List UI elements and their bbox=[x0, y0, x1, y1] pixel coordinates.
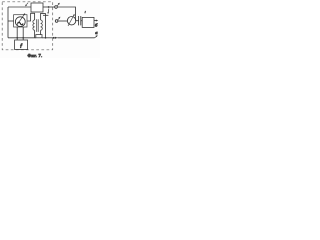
measured device box Z bbox=[82, 17, 94, 27]
wire secondary down to bottom bus bbox=[45, 13, 47, 37]
wire top horizontal to amplifier bbox=[8, 6, 31, 8]
node junction dot on top wire bbox=[48, 6, 50, 8]
wire generator stub bbox=[8, 20, 14, 22]
terminal circle b (lower output) bbox=[55, 20, 58, 23]
svg-text:Фиг. 7.: Фиг. 7. bbox=[28, 53, 43, 58]
terminal circle a (top output) bbox=[55, 6, 58, 9]
capacitor C bbox=[79, 16, 81, 25]
wire secondary bottom lead bbox=[40, 30, 42, 34]
label above measured box bbox=[84, 11, 87, 13]
svg-text:ƒ: ƒ bbox=[20, 43, 23, 49]
wire capacitor to box bbox=[81, 20, 82, 22]
node junction dot at border bbox=[53, 37, 55, 39]
wire amplifier output to terminal bbox=[43, 6, 55, 8]
wire bottom bus right run bbox=[57, 37, 94, 39]
wire galvanometer to capacitor bbox=[76, 20, 79, 22]
wire left vertical bus bbox=[7, 7, 9, 38]
wire generator lower leads bbox=[17, 27, 23, 40]
wire secondary tap bar bbox=[43, 14, 48, 16]
transformer T1 secondary winding bbox=[41, 20, 43, 30]
amplifier box U bbox=[31, 3, 43, 12]
output arrow top bbox=[94, 20, 97, 22]
output arrow bottom bbox=[95, 36, 97, 37]
galvanometer P1 bbox=[67, 17, 75, 25]
transformer T1 primary winding bbox=[33, 20, 35, 30]
wire bottom bus left bbox=[8, 37, 36, 39]
wire lower output run bbox=[58, 20, 68, 22]
variable arrow through oscillator bbox=[17, 15, 24, 25]
wire secondary top lead bbox=[41, 13, 46, 20]
wire oscillator to transformer bbox=[27, 13, 35, 21]
frequency meter box f bbox=[15, 40, 28, 50]
oscillator G1 (box with circle and wave) bbox=[14, 15, 27, 27]
wire primary bottom lead bbox=[34, 30, 36, 38]
wire bottom bus mid bbox=[42, 37, 54, 39]
dashed enclosure (generator unit) bbox=[2, 2, 53, 50]
arrow direction on bottom wire bbox=[55, 37, 58, 39]
arrow tap onto transformer secondary bbox=[47, 9, 50, 13]
resistor R (box in bottom wire) bbox=[36, 35, 42, 38]
transformer core bbox=[37, 19, 39, 32]
wire top output run bbox=[57, 7, 75, 21]
node dots on bottom bus bbox=[16, 37, 18, 39]
input arrow at amplifier bbox=[26, 3, 28, 5]
node junction dot transformer down lead bbox=[45, 37, 47, 39]
